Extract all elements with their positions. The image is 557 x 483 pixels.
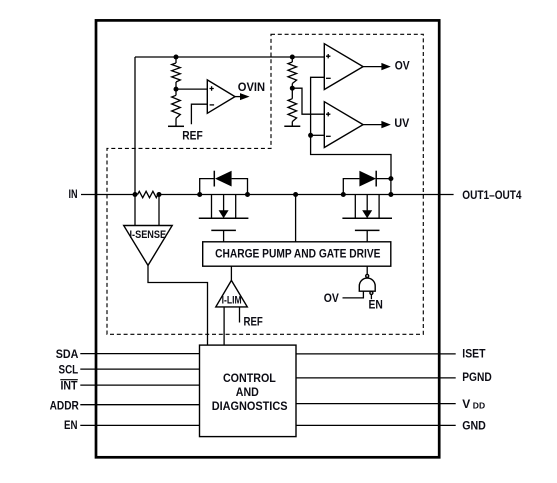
comparator I-LIM: [216, 266, 248, 307]
svg-text:REF: REF: [244, 315, 263, 329]
sense resistor Rsense: [138, 191, 158, 197]
wire ISET: [296, 353, 456, 355]
svg-text:CHARGE PUMP AND GATE DRIVE: CHARGE PUMP AND GATE DRIVE: [215, 247, 380, 261]
wire UV - input tap: [311, 134, 325, 136]
comparator UV: [324, 102, 363, 148]
node rail/R1 dot: [174, 55, 179, 60]
wire GND: [296, 424, 456, 426]
svg-text:SDA: SDA: [56, 347, 79, 361]
svg-text:GND: GND: [462, 419, 486, 433]
resistor R1 (OVIN divider top): [172, 57, 181, 95]
svg-text:OV: OV: [324, 291, 339, 305]
pin VDD label: [462, 397, 485, 411]
gate U1 AND with inverted input (gate drive enable): [359, 266, 375, 299]
transistor Q2 (right MOSFET switch with body diode): [342, 171, 392, 242]
main rail wire IN-OUT: [158, 194, 454, 196]
wire OVIN output with arrow: [235, 96, 240, 98]
wire OV to gate input: [343, 291, 364, 298]
wire SCL: [80, 368, 199, 370]
svg-text:OVIN: OVIN: [238, 80, 265, 94]
comparator OV: [324, 44, 363, 90]
wire IN to sense resistor: [81, 194, 138, 196]
svg-text:OUT1–OUT4: OUT1–OUT4: [462, 188, 521, 202]
wire I-SENSE right input: [158, 195, 160, 226]
wire REF to OVIN - input: [191, 104, 207, 124]
svg-text:OV: OV: [395, 58, 410, 72]
wire VDD: [296, 403, 456, 405]
node IN/rail/I-SENSE dot: [133, 192, 138, 197]
svg-text:EN: EN: [64, 418, 78, 432]
op-amp OVIN comparator: [207, 80, 235, 113]
resistor R2 (OVIN divider bottom): [172, 95, 181, 126]
resistor R3 (OV/UV divider top): [288, 57, 297, 99]
wire EN: [80, 424, 199, 426]
wire I-SENSE left input: [134, 195, 136, 226]
svg-text:INT: INT: [61, 378, 79, 392]
node Q1 drain dot: [245, 192, 250, 197]
dashed analog-section outline: [107, 34, 423, 334]
wire I-LIM REF input: [239, 307, 241, 323]
ground (OV/UV divider): [284, 125, 300, 127]
wire SDA: [80, 353, 199, 355]
wire top rail vertical from IN node: [134, 57, 136, 195]
svg-text:CONTROL: CONTROL: [223, 371, 276, 385]
wire OV-/UV- inputs to OUT node: [311, 77, 391, 178]
svg-text:DIAGNOSTICS: DIAGNOSTICS: [212, 399, 288, 413]
transistor Q1 (left MOSFET switch with body diode): [199, 171, 249, 242]
amplifier I-SENSE: [124, 226, 173, 266]
svg-text:I-LIM: I-LIM: [222, 294, 242, 306]
svg-text:SCL: SCL: [59, 363, 79, 377]
svg-text:REF: REF: [182, 129, 202, 143]
resistor R4 (OV/UV divider bottom): [288, 99, 297, 127]
svg-text:ADDR: ADDR: [50, 399, 79, 413]
svg-text:DD: DD: [473, 400, 485, 410]
wire top rail horizontal to OV comparator: [135, 56, 324, 58]
wire ADDR: [80, 404, 199, 406]
node Q2 diode junction dot: [388, 176, 393, 181]
wire I-LIM left input to control block: [223, 307, 225, 345]
wire PGND: [296, 377, 456, 379]
node Q2 drain dot: [388, 192, 393, 197]
svg-text:ISET: ISET: [462, 347, 486, 361]
node sense/I-SENSE dot: [157, 192, 162, 197]
svg-text:IN: IN: [69, 187, 78, 201]
wire UV output with arrow: [363, 124, 382, 126]
node Q1 source dot: [197, 192, 202, 197]
wire I-SENSE output to control block: [148, 265, 208, 345]
node R3/R4 junction dot: [290, 86, 295, 91]
wire OV output with arrow: [363, 66, 382, 68]
svg-text:I-SENSE: I-SENSE: [130, 229, 167, 241]
svg-text:PGND: PGND: [462, 370, 492, 384]
block charge pump and gate drive: [203, 242, 391, 266]
ground (OVIN divider): [168, 125, 184, 127]
wire INT: [80, 384, 199, 386]
svg-text:UV: UV: [394, 116, 409, 130]
node Q2 source dot: [341, 192, 346, 197]
node rail/R3 dot: [290, 55, 295, 60]
node charge pump supply dot: [293, 192, 298, 197]
wire divider tap to OVIN + input: [176, 88, 207, 90]
block control and diagnostics: [200, 345, 297, 437]
svg-text:AND: AND: [236, 385, 259, 399]
svg-text:V: V: [462, 397, 470, 411]
node UV- junction dot: [308, 133, 313, 138]
wire divider tap to UV + input: [292, 88, 324, 114]
svg-text:EN: EN: [369, 298, 383, 312]
wire charge pump supply: [295, 195, 297, 242]
outer IC boundary box: [96, 20, 439, 457]
node R1/R2 junction dot: [174, 87, 179, 92]
